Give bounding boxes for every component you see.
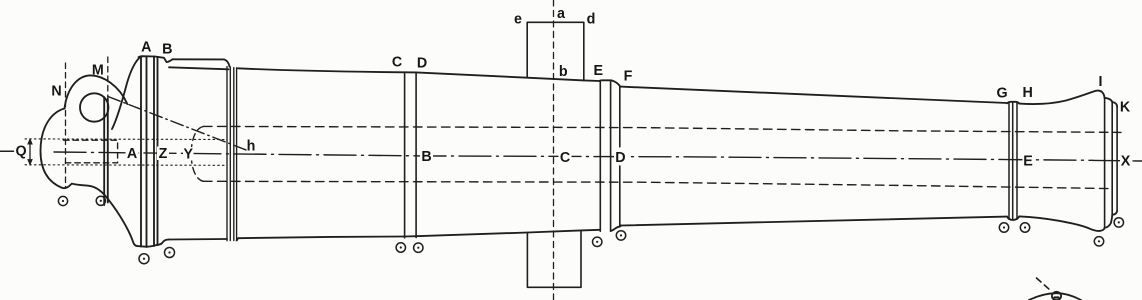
svg-text:e: e [514,12,522,28]
step after ring F bottom [611,226,621,232]
chase bottom line astragal to ring C [238,237,404,239]
base ring A vertical lines [141,56,158,247]
knob center mark [1055,296,1059,298]
chase top line first reinforce to ring C [238,68,405,72]
ring G-H vertical lines [1009,102,1017,220]
centerline dash right of X [1133,160,1142,162]
step from ring A to band B bottom [158,240,169,245]
ring F vertical line (gap at label D) [619,87,621,227]
chase bottom line ring F to ring G [621,217,1007,226]
cascabel neck bottom curve [62,184,105,196]
svg-text:F: F [624,69,633,85]
svg-text:d: d [587,12,596,28]
marker under band B start [165,248,175,258]
marker under ring H [1020,223,1029,232]
muzzle swell top [1019,91,1104,104]
svg-text:D: D [417,56,427,72]
svg-text:Y: Y [184,147,194,163]
dashed chamber rectangle [64,140,118,163]
center dots of markers [62,200,1120,260]
ring E vertical lines [600,80,610,231]
muzzle face vertical lines [1105,98,1118,228]
circled-dot markers [58,196,1123,264]
white knockouts for axis labels [126,146,1132,167]
breech swell bottom [105,196,158,247]
svg-text:A: A [141,39,151,55]
reinforce band B top edge [173,59,230,66]
chamber rounded end (dashed cap) [191,126,203,181]
svg-text:H: H [1023,85,1033,101]
svg-text:h: h [247,139,256,155]
step from astragal to chase bottom [237,238,239,240]
breech face vertical lines [104,97,108,205]
band B bottom edge [169,238,228,241]
svg-text:K: K [1120,100,1131,116]
muzzle face bottom mouldings [1105,211,1118,228]
ring E-F top edge [600,79,613,82]
knob of lower figure [1052,292,1061,300]
marker under muzzle swell [1094,237,1103,246]
diagonal dash-dot line from loop to h [108,97,250,152]
reinforce band B shoulder line [169,67,229,69]
marker under breech face [96,196,105,205]
bottom line across ring C-D [405,235,417,237]
svg-text:B: B [162,41,172,57]
bore lower dashed line [204,181,1114,188]
svg-text:X: X [1121,154,1131,170]
marker under ring C [396,243,405,252]
top line across ring C-D [405,71,417,73]
vent dotted line upper [25,138,226,141]
vent dotted line lower [25,164,226,167]
arc of lower figure [1029,293,1081,300]
chase top line ring F to ring G [620,87,1007,103]
marker under ring E [593,237,602,246]
svg-text:E: E [594,63,604,79]
cascabel button [41,109,65,188]
top line ring D to ring E (through trunnion) [416,72,599,81]
bottom line ring D to ring E (through trunnion) [416,230,600,236]
svg-text:b: b [559,64,568,80]
svg-text:C: C [560,150,570,166]
letter labels [15,6,1130,170]
base ring A top edge [139,56,173,62]
centerline axis stub at left [0,150,14,152]
vertical dashed line through M [107,57,109,188]
bore upper dashed line [204,126,1122,132]
ring D vertical line [415,72,417,237]
partial figure at bottom right [1029,278,1081,300]
centerline axis (dash-dot) [54,152,1093,160]
marker under ring D [414,243,423,252]
svg-text:D: D [615,150,625,166]
marker under ring G [999,223,1008,232]
svg-text:E: E [1023,153,1033,169]
breech loop hole circle [80,93,108,121]
ring G-H bottom bump [1007,216,1019,220]
upper trunnion rectangle [527,22,584,80]
marker under ring F [616,231,625,240]
astragal ring vertical lines [227,67,237,241]
svg-text:B: B [421,149,431,165]
vertical dashed line through N [65,63,67,188]
dashed leader line of lower figure [1037,278,1051,290]
ring C vertical line [404,72,406,238]
marker under base ring A [139,254,149,264]
ring G-H top bump [1007,102,1019,104]
Q arrowheads [27,138,33,166]
centerline solid segment through muzzle face [1093,159,1120,161]
lower trunnion rectangle [527,230,581,287]
svg-text:I: I [1099,74,1103,90]
trunnion axis vertical dashed line [553,0,555,300]
Q dimension arrow [29,141,31,164]
svg-text:a: a [557,6,566,22]
marker under cascabel button [58,196,67,205]
breech loop outer arc [65,75,128,108]
muzzle swell bottom [1019,216,1104,231]
svg-text:Z: Z [159,146,168,162]
svg-text:A: A [127,146,137,162]
svg-text:C: C [392,55,402,71]
step down after ring F top [613,81,621,87]
svg-text:G: G [996,86,1007,102]
marker under muzzle face [1114,218,1123,227]
breech top ogee rise [112,57,141,129]
svg-text:N: N [51,84,61,100]
svg-text:M: M [92,63,104,79]
muzzle face top mouldings [1105,98,1118,107]
svg-text:Q: Q [15,144,26,160]
